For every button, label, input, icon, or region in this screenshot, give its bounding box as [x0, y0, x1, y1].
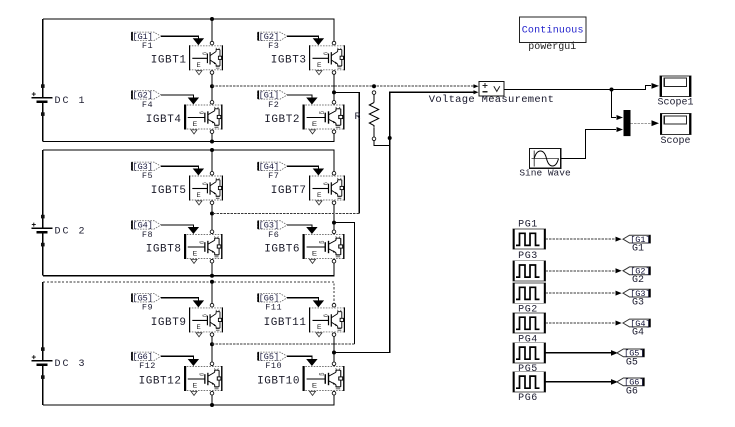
Scope1 block [660, 76, 691, 97]
bridge 2 node right junction [332, 221, 336, 225]
wire PG3 to Goto [G2] [546, 270, 616, 272]
IGBT5 top port [210, 172, 214, 176]
transistor IGBT10 (IGBT block) [303, 366, 345, 395]
transistor IGBT9 (IGBT block) [189, 307, 223, 336]
IGBT11 bottom port [332, 333, 336, 337]
Voltage Measurement - input arrowhead [474, 90, 479, 94]
wire From [G3] to IGBT6 gate [287, 225, 312, 227]
From tag [G1] for IGBT1 [131, 32, 161, 42]
svg-text:F9: F9 [142, 303, 153, 313]
svg-text:F8: F8 [142, 230, 153, 240]
From tag [G6] for IGBT11 [258, 294, 288, 304]
wire cascade bridge2 right node to bridge3 left node [334, 223, 355, 345]
svg-text:F11: F11 [265, 303, 282, 313]
junction resistor top on output line [372, 84, 376, 88]
wire From [G5] to IGBT9 gate [161, 298, 198, 301]
svg-text:IGBT9: IGBT9 [151, 317, 187, 329]
svg-text:powergui: powergui [528, 41, 576, 53]
Goto tag [G3] [623, 289, 651, 299]
svg-text:F2: F2 [268, 100, 279, 110]
wire PG6 to Goto [G6] [546, 381, 612, 383]
IGBT7 bottom port [332, 201, 336, 205]
IGBT10 bottom port [332, 391, 336, 395]
wire branch down to Mux input 1 [612, 90, 617, 118]
IGBT12 top port [210, 362, 214, 366]
svg-text:F12: F12 [139, 361, 156, 371]
IGBT9 top port [210, 303, 214, 307]
IGBT10 gate arrowhead [306, 359, 317, 366]
svg-text:IGBT1: IGBT1 [151, 55, 187, 67]
wire battery DC 1 top [42, 19, 44, 97]
Sine Wave block [530, 149, 561, 169]
IGBT10 top port [332, 362, 336, 366]
svg-text:G4: G4 [632, 327, 644, 338]
transistor IGBT5 (IGBT block) [189, 176, 223, 205]
bridge 2 left bottom wire [211, 263, 213, 276]
junction scope branch [610, 88, 614, 92]
bridge 1 top rail wire [43, 19, 334, 41]
transistor IGBT12 (IGBT block) [184, 366, 223, 395]
IGBT3 bottom port [332, 71, 336, 75]
junction resistor bottom return [388, 136, 392, 140]
Goto tag [G5] [617, 349, 645, 359]
bridge 1 wire rail to top-row ports [211, 19, 213, 41]
IGBT6 gate arrowhead [306, 227, 317, 234]
bridge 3 bottom rail wire [43, 395, 334, 405]
IGBT8 bottom port [210, 259, 214, 263]
svg-text:F1: F1 [142, 41, 153, 51]
wire From [G3] to IGBT5 gate [161, 166, 198, 168]
bridge 2 junction bottom rail [210, 274, 214, 278]
wire cascade bridge1 right node to bridge2 left node [334, 92, 359, 213]
transistor IGBT7 (IGBT block) [309, 176, 345, 205]
svg-text:F4: F4 [142, 100, 153, 110]
bridge 2 right mid wire [333, 205, 335, 230]
wire battery DC 3 top [42, 282, 44, 361]
wire PG4 to Goto [G4] [546, 322, 616, 324]
Goto tag [G1] [623, 235, 651, 245]
svg-text:Continuous: Continuous [522, 25, 584, 37]
IGBT1 top port [210, 41, 214, 45]
IGBT8 gate arrowhead [188, 227, 199, 234]
From tag [G1] for IGBT2 [258, 91, 288, 101]
bridge 3 node left junction [210, 342, 214, 346]
IGBT12 gate arrowhead [188, 359, 199, 366]
wire Voltage Measurement output to Scope1 [504, 86, 651, 90]
Pulse Generator PG6 block [513, 372, 546, 392]
wire Mux output to Scope [631, 122, 652, 124]
From tag [G5] for IGBT10 [258, 352, 288, 362]
From tag [G5] for IGBT9 [131, 294, 161, 304]
Goto [G3] arrowhead [616, 291, 622, 296]
DC source DC 3 battery symbol [32, 347, 53, 379]
svg-text:F5: F5 [142, 171, 153, 181]
svg-text:IGBT2: IGBT2 [264, 114, 300, 126]
IGBT11 top port [332, 303, 336, 307]
Goto [G1] arrowhead [616, 237, 622, 242]
svg-text:Scope1: Scope1 [657, 98, 693, 109]
transistor IGBT8 (IGBT block) [184, 234, 223, 263]
svg-text:F10: F10 [265, 361, 282, 371]
bridge 1 left bottom wire [211, 134, 213, 142]
svg-text:PG1: PG1 [518, 220, 538, 231]
wire Sine Wave to Mux input 2 [561, 130, 616, 159]
IGBT4 gate arrowhead [188, 98, 199, 105]
Mux input 2 arrowhead [617, 127, 624, 132]
wire From [G1] to IGBT1 gate [161, 36, 198, 38]
Pulse Generator PG3 block [513, 261, 546, 281]
IGBT3 gate arrowhead [313, 38, 324, 45]
bridge 3 junction bottom rail [210, 403, 214, 407]
IGBT4 bottom port [210, 130, 214, 134]
Pulse Generator PG2 block [513, 283, 546, 303]
From tag [G3] for IGBT5 [131, 162, 161, 172]
From tag [G4] for IGBT7 [258, 162, 288, 172]
wire From [G1] to IGBT2 gate [287, 95, 312, 98]
wire From [G2] to IGBT3 gate [287, 36, 318, 38]
wire resistor bottom to return line [374, 141, 390, 146]
svg-text:Scope: Scope [660, 136, 690, 147]
bridge 1 junction top rail [210, 17, 214, 21]
svg-text:IGBT5: IGBT5 [151, 185, 187, 197]
wire From [G2] to IGBT4 gate [161, 95, 193, 98]
bridge 2 top rail wire [43, 150, 334, 171]
IGBT2 gate arrowhead [306, 98, 317, 105]
wire PG1 to Goto [G1] [546, 238, 616, 240]
Scope input arrowhead [652, 120, 660, 126]
bridge 1 left mid wire [211, 75, 213, 101]
wire battery DC 1 bottom [42, 101, 44, 141]
bridge 1 node left junction [210, 84, 214, 88]
IGBT7 top port [332, 172, 336, 176]
From tag [G2] for IGBT4 [131, 91, 161, 101]
svg-text:DC 3: DC 3 [55, 359, 87, 370]
Pulse Generator PG4 block [513, 313, 546, 333]
IGBT5 gate arrowhead [193, 169, 204, 176]
bridge 1 junction bottom rail [210, 140, 214, 144]
svg-text:Sine Wave: Sine Wave [519, 167, 571, 178]
svg-text:IGBT8: IGBT8 [146, 243, 182, 255]
svg-text:G3: G3 [632, 298, 644, 309]
svg-text:PG3: PG3 [518, 251, 538, 262]
IGBT3 top port [332, 41, 336, 45]
IGBT6 bottom port [332, 259, 336, 263]
wire PG2 to Goto [G3] [546, 292, 616, 294]
bridge 2 left mid wire [211, 205, 213, 230]
From tag [G3] for IGBT6 [258, 221, 288, 231]
svg-text:IGBT11: IGBT11 [264, 317, 307, 329]
Goto tag [G4] [623, 319, 651, 329]
wire battery DC 3 bottom [42, 364, 44, 405]
IGBT5 bottom port [210, 201, 214, 205]
svg-text:IGBT6: IGBT6 [264, 243, 300, 255]
Goto tag [G6] [617, 378, 645, 388]
Mux input 1 arrowhead [617, 115, 624, 120]
IGBT1 bottom port [210, 71, 214, 75]
IGBT7 gate arrowhead [313, 169, 324, 176]
bridge 3 left bottom wire [211, 395, 213, 405]
transistor IGBT2 (IGBT block) [303, 105, 345, 134]
IGBT9 gate arrowhead [193, 300, 204, 307]
wire From [G4] to IGBT7 gate [287, 166, 318, 168]
IGBT1 gate arrowhead [193, 38, 204, 45]
Mux block [624, 110, 631, 136]
svg-text:Voltage Measurement: Voltage Measurement [429, 94, 554, 106]
svg-text:G1: G1 [632, 244, 644, 255]
svg-text:IGBT4: IGBT4 [146, 114, 182, 126]
svg-text:F6: F6 [268, 230, 279, 240]
transistor IGBT11 (IGBT block) [309, 307, 345, 336]
wire battery DC 2 top [42, 150, 44, 228]
IGBT6 top port [332, 230, 336, 234]
svg-text:IGBT12: IGBT12 [139, 375, 182, 387]
svg-text:PG6: PG6 [518, 393, 538, 404]
bridge 1 node right junction [332, 90, 336, 94]
Pulse Generator PG5 block [513, 343, 546, 363]
powergui block (Continuous) [520, 17, 587, 42]
From tag [G2] for IGBT3 [258, 32, 288, 42]
wire PG5 to Goto [G5] [546, 352, 612, 354]
bridge 3 wire rail to top-row ports [211, 282, 213, 303]
wire battery DC 2 bottom [42, 232, 44, 276]
bridge 2 bottom rail wire [43, 263, 334, 276]
bridge 3 junction top rail [210, 280, 214, 284]
IGBT2 top port [332, 101, 336, 105]
bridge 3 node right junction [332, 351, 336, 355]
IGBT11 gate arrowhead [313, 300, 324, 307]
bridge 3 top rail wire [43, 282, 334, 303]
wire From [G6] to IGBT11 gate [287, 298, 318, 301]
From tag [G6] for IGBT12 [131, 352, 161, 362]
bridge 1 bottom rail wire [43, 134, 334, 142]
wire From [G4] to IGBT8 gate [161, 225, 193, 227]
svg-text:G2: G2 [632, 275, 644, 286]
wire bridge1 output node to Voltage Measurement + input [212, 85, 474, 87]
bridge 2 wire rail to top-row ports [211, 150, 213, 171]
bridge 2 node left junction [210, 212, 214, 216]
transistor IGBT3 (IGBT block) [309, 45, 345, 74]
IGBT8 top port [210, 230, 214, 234]
IGBT4 top port [210, 101, 214, 105]
transistor IGBT1 (IGBT block) [189, 45, 223, 74]
IGBT9 bottom port [210, 333, 214, 337]
Voltage Measurement block [479, 82, 504, 97]
resistor R load [369, 91, 378, 141]
Goto [G4] arrowhead [616, 321, 622, 326]
Pulse Generator PG1 block [513, 229, 546, 249]
svg-text:R: R [355, 112, 361, 123]
Scope block [660, 114, 691, 135]
Goto [G5] arrowhead [611, 350, 618, 356]
svg-text:G6: G6 [626, 386, 638, 397]
svg-text:DC 1: DC 1 [55, 96, 87, 107]
From tag [G4] for IGBT8 [131, 221, 161, 231]
Voltage Measurement + input arrowhead [474, 84, 479, 88]
svg-text:IGBT10: IGBT10 [257, 375, 300, 387]
bridge 2 junction top rail [210, 148, 214, 152]
svg-text:G5: G5 [626, 357, 638, 368]
svg-text:DC 2: DC 2 [55, 227, 87, 238]
svg-text:IGBT7: IGBT7 [271, 185, 307, 197]
Goto [G6] arrowhead [611, 379, 618, 385]
wire From [G6] to IGBT12 gate [161, 356, 193, 359]
bridge 3 right mid wire [333, 337, 335, 362]
DC source DC 1 battery symbol [32, 84, 53, 116]
Goto [G2] arrowhead [616, 268, 622, 273]
svg-text:IGBT3: IGBT3 [271, 55, 307, 67]
IGBT12 bottom port [210, 391, 214, 395]
wire bridge3 right node to Voltage Measurement - input [334, 92, 474, 352]
Scope1 input arrowhead [652, 83, 660, 89]
svg-text:F3: F3 [268, 41, 279, 51]
wire From [G5] to IGBT10 gate [287, 356, 312, 359]
svg-text:F7: F7 [268, 171, 279, 181]
DC source DC 2 battery symbol [32, 215, 53, 247]
transistor IGBT4 (IGBT block) [184, 105, 223, 134]
Goto tag [G2] [623, 267, 651, 277]
bridge 3 left mid wire [211, 337, 213, 362]
transistor IGBT6 (IGBT block) [303, 234, 345, 263]
bridge 1 right mid wire [333, 75, 335, 101]
IGBT2 bottom port [332, 130, 336, 134]
